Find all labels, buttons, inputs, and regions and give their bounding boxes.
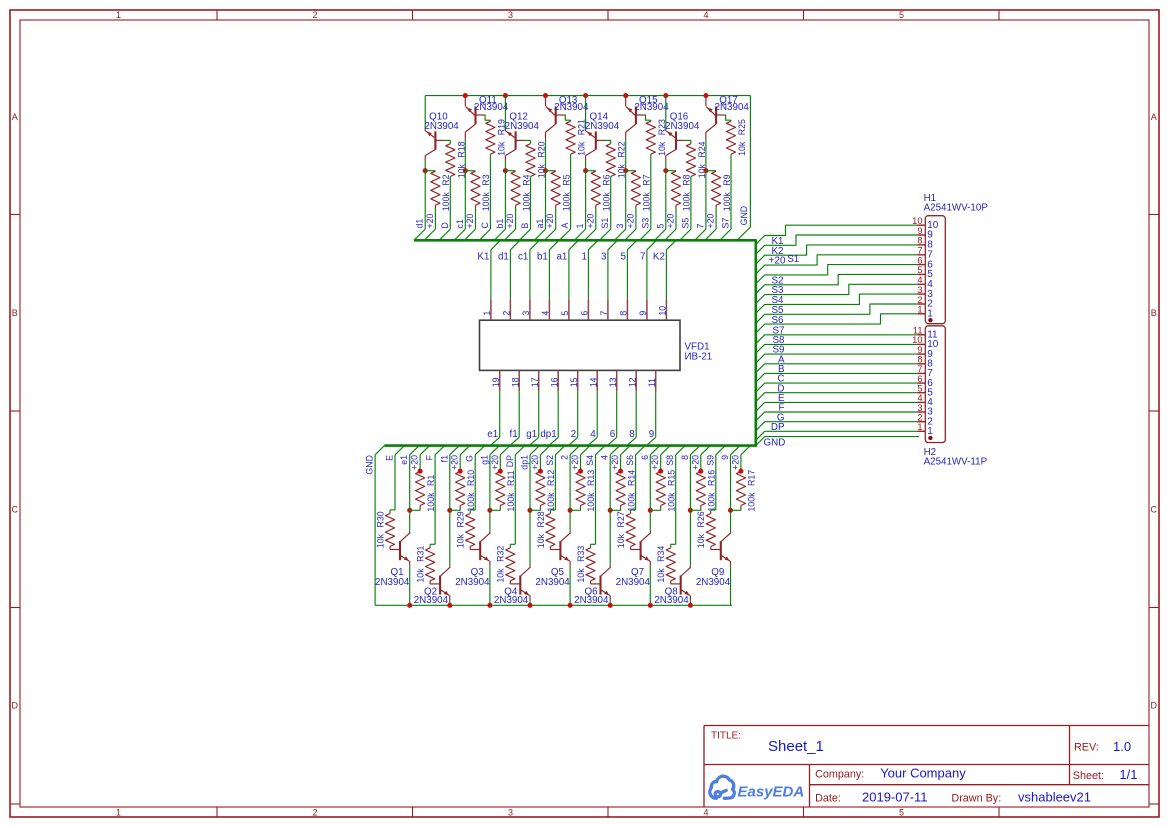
wire Q2 emitter to GND rail (449, 600, 451, 605)
resistor R7 100k (631, 171, 640, 205)
wire GND top rail (425, 95, 750, 97)
svg-text:4: 4 (541, 311, 551, 316)
pin 8 (H2) (917, 363, 925, 365)
svg-text:1: 1 (581, 251, 586, 262)
pin 8 (VFD1) (626, 299, 628, 320)
wire net b1 to bus (504, 171, 506, 229)
bus entry + wire net +20 to R1 (420, 446, 430, 455)
svg-text:D: D (12, 701, 19, 711)
junction node f1 / R10 / Q2 (447, 508, 452, 513)
svg-text:R9: R9 (722, 174, 732, 185)
svg-text:R7: R7 (642, 174, 652, 185)
svg-text:+20: +20 (666, 213, 676, 228)
svg-text:S3: S3 (640, 218, 650, 229)
svg-text:S1: S1 (787, 254, 799, 265)
pin 12 (VFD1) (635, 370, 637, 391)
svg-text:1: 1 (116, 10, 121, 20)
svg-text:D: D (440, 222, 450, 228)
svg-text:e1: e1 (399, 455, 409, 465)
wire Q12 collector to junction (504, 161, 506, 171)
pin 5 (VFD1) (568, 299, 570, 320)
resistor R30 10k (389, 512, 391, 514)
wire R32 to Q4 base (510, 583, 520, 585)
junction node a1 / R5 / Q13 (543, 168, 548, 173)
bus entry + wire net 8 (690, 446, 700, 455)
svg-text:100k: 100k (586, 492, 596, 512)
wire R7 to bus (net +20) (635, 208, 637, 229)
svg-text:R8: R8 (682, 174, 692, 185)
transistor Q15 (2N3904 NPN) (625, 96, 627, 107)
junction node 8 / R16 / Q8 (688, 508, 693, 513)
svg-text:13: 13 (608, 377, 618, 387)
junction node +20 / R1 (418, 469, 423, 474)
svg-text:S8: S8 (665, 455, 675, 466)
wire R13 to junction (570, 509, 580, 511)
svg-text:100k: 100k (506, 492, 516, 512)
transistor Q16 (2N3904 NPN) (665, 130, 667, 132)
svg-text:A: A (1151, 112, 1157, 122)
svg-text:R11: R11 (506, 470, 516, 486)
resistor R6 100k (591, 171, 600, 205)
svg-text:10k: 10k (696, 533, 706, 548)
resistor R4 100k (511, 171, 520, 205)
svg-text:2019-07-11: 2019-07-11 (862, 789, 928, 804)
wire Q9 emitter to GND rail (730, 566, 732, 606)
pin 7 (VFD1) (607, 299, 609, 320)
pin 4 (H1) (917, 283, 925, 285)
junction node +20 / R15 (658, 469, 663, 474)
wire R14 to junction (610, 509, 620, 511)
bus entry for net 9 (646, 437, 655, 445)
wire junction to R2 (425, 170, 435, 172)
bus entry for net S7 (720, 229, 731, 240)
svg-text:R28: R28 (536, 511, 546, 527)
svg-text:100k: 100k (466, 492, 476, 512)
wire net a1 to bus (545, 171, 547, 229)
bus entry for net S1 (600, 229, 611, 240)
wire Q6 emitter to GND rail (609, 600, 611, 605)
wire VFD1 pin 16 to bus (net dp1) (557, 391, 559, 437)
bus entry + wire net S2 to R28 (555, 446, 565, 455)
svg-text:1: 1 (917, 305, 922, 315)
bus entry + wire net F to R31 (435, 446, 445, 455)
junction on GND rail at Q4 emitter (527, 603, 532, 608)
svg-text:A: A (560, 223, 570, 229)
bus exit + wire to H2 pin 9 (net S9) (756, 354, 917, 363)
svg-text:R29: R29 (456, 511, 466, 527)
wire net c1 to bus (464, 171, 466, 229)
svg-text:c1: c1 (455, 219, 465, 228)
resistor R32 10k (509, 546, 511, 548)
svg-text:R3: R3 (481, 174, 491, 185)
svg-text:16: 16 (549, 377, 559, 387)
resistor R8 100k (671, 171, 680, 205)
bus entry + wire net a1 to VFD1 pin 5 (569, 240, 579, 250)
svg-text:8: 8 (619, 311, 629, 316)
pin 1 marker dot (H1) (928, 318, 932, 322)
wire VFD1 pin 17 to bus (net g1) (538, 391, 540, 437)
svg-text:+20: +20 (545, 213, 555, 228)
wire R3 to bus (net +20) (475, 208, 477, 229)
svg-text:9: 9 (720, 455, 730, 460)
svg-text:10k: 10k (656, 568, 666, 583)
svg-text:8: 8 (680, 455, 690, 460)
pin 16 (VFD1) (557, 370, 559, 391)
svg-text:2: 2 (312, 10, 317, 20)
bus exit + wire to H1 pin 5 (756, 274, 917, 293)
svg-text:R12: R12 (546, 470, 556, 486)
wire R9 to bus (net +20) (715, 208, 717, 229)
svg-text:B: B (520, 223, 530, 229)
svg-text:100k: 100k (707, 492, 717, 512)
pin 1 marker dot (H2) (928, 436, 932, 440)
bus entry + wire net +20 to R16 (701, 446, 711, 455)
junction node 7 / R9 / Q17 (703, 168, 708, 173)
svg-text:11: 11 (913, 326, 923, 336)
resistor R28 10k (549, 512, 551, 514)
svg-text:3: 3 (917, 285, 922, 295)
bus entry + wire net +20 to R15 (661, 446, 671, 455)
wire Q4 collector to junction (529, 510, 531, 565)
wire Q13 collector to junction (545, 139, 547, 170)
resistor R27 10k (630, 512, 632, 514)
svg-text:100k: 100k (747, 492, 757, 512)
pin 11 (H2) (917, 334, 925, 336)
svg-text:10k: 10k (577, 141, 587, 156)
svg-text:c1: c1 (518, 251, 528, 262)
wire Q7 collector to junction (649, 510, 651, 531)
wire R20 to bus (net B) (530, 177, 532, 230)
wire R22 to bus (net S1) (610, 177, 612, 230)
svg-text:4: 4 (917, 275, 922, 285)
wire Q8 collector to junction (689, 510, 691, 565)
resistor R18 10k (446, 144, 455, 177)
svg-text:TITLE:: TITLE: (711, 731, 741, 742)
svg-text:3: 3 (615, 224, 625, 229)
svg-text:DP: DP (771, 422, 785, 433)
svg-text:B: B (12, 308, 18, 318)
pin 3 (H2) (917, 411, 925, 413)
pin 6 (H2) (917, 382, 925, 384)
bus entry for net A (559, 229, 570, 240)
IC VFD1 (IV-21 vacuum fluorescent display) body (480, 320, 681, 370)
svg-text:R30: R30 (375, 511, 385, 527)
junction node 9 / R17 / Q9 (728, 508, 733, 513)
svg-text:9: 9 (917, 226, 922, 236)
svg-text:2N3904: 2N3904 (585, 121, 620, 132)
wire R17 to junction (731, 509, 741, 511)
bus entry + wire net e1 (410, 446, 420, 455)
transistor Q6 (2N3904 NPN) (599, 576, 601, 595)
svg-text:6: 6 (917, 374, 922, 384)
junction node 3 / R7 / Q15 (623, 168, 628, 173)
svg-text:19: 19 (491, 377, 501, 387)
svg-text:d1: d1 (415, 219, 425, 229)
junction node g1 / R11 / Q3 (487, 508, 492, 513)
svg-text:R13: R13 (586, 470, 596, 486)
bus entry + wire net +20 to R17 (741, 446, 751, 455)
bus entry + wire net S8 to R34 (676, 446, 686, 455)
svg-text:R1: R1 (426, 475, 436, 486)
svg-text:3: 3 (601, 251, 607, 262)
pin 7 (H2) (917, 372, 925, 374)
svg-text:4: 4 (917, 393, 922, 403)
wire Q1 collector to junction (409, 510, 411, 531)
svg-text:3: 3 (508, 807, 513, 817)
svg-text:Drawn By:: Drawn By: (951, 793, 1001, 805)
svg-text:4: 4 (703, 10, 708, 20)
resistor R22 10k (606, 144, 615, 177)
svg-text:+20: +20 (490, 455, 500, 470)
bus entry for net d1 (414, 229, 425, 240)
resistor R20 10k (526, 144, 535, 177)
svg-text:R17: R17 (747, 470, 757, 486)
svg-text:100k: 100k (426, 492, 436, 512)
svg-text:+20: +20 (706, 213, 716, 228)
svg-text:EasyEDA: EasyEDA (738, 783, 805, 800)
bus exit + wire to H2 pin 11 (net S7) (756, 335, 917, 344)
svg-text:+20: +20 (625, 213, 635, 228)
bus exit + wire to H1 pin 3 (756, 294, 917, 313)
svg-text:R15: R15 (666, 470, 676, 486)
pin 6 (VFD1) (587, 299, 589, 320)
pin 2 (H2) (917, 421, 925, 423)
svg-text:3: 3 (508, 10, 513, 20)
bus entry + wire net +20 to R10 (460, 446, 470, 455)
wire Q1 emitter to GND rail (409, 566, 411, 606)
svg-text:dp1: dp1 (520, 455, 530, 470)
svg-text:1.0: 1.0 (1113, 739, 1131, 754)
bus entry for net 6 (607, 437, 616, 445)
wire junction to R9 (706, 170, 716, 172)
bus entry for net 4 (588, 437, 597, 445)
transistor Q14 (2N3904 NPN) (585, 130, 587, 132)
junction on GND rail at Q17 emitter (703, 93, 708, 98)
transistor Q11 (2N3904 NPN) (464, 96, 466, 107)
pin 5 (H2) (917, 392, 925, 394)
svg-text:C: C (480, 222, 490, 229)
pin 5 (H1) (917, 273, 925, 275)
wire R8 to bus (net +20) (675, 208, 677, 229)
bus entry + wire net +20 to R11 (500, 446, 510, 455)
bus exit + wire to H1 pin 1 (756, 314, 917, 333)
bus entry for net 7 (695, 229, 706, 240)
wire R16 to junction (690, 509, 700, 511)
wire VFD1 pin 11 to bus (net 9) (655, 391, 657, 437)
wire R11 to junction (490, 509, 500, 511)
bus exit + wire to H1 pin 6 (756, 265, 917, 284)
svg-text:f1: f1 (510, 429, 518, 440)
wire R2 to bus (net +20) (434, 208, 436, 229)
svg-text:1: 1 (917, 422, 922, 432)
bus exit + wire to H2 pin 1 (net DP) (756, 431, 917, 440)
junction node 6 / R15 / Q7 (648, 508, 653, 513)
bus exit + wire to H2 pin 6 (net C) (756, 383, 917, 392)
pin 18 (VFD1) (518, 370, 520, 391)
bus entry + wire net S4 to R33 (596, 446, 606, 455)
svg-text:+20: +20 (450, 455, 460, 470)
transistor Q1 (2N3904 NPN) (399, 541, 401, 560)
bus entry + wire net 6 (650, 446, 660, 455)
bus entry + wire net 5 to VFD1 pin 8 (627, 240, 637, 250)
junction node 5 / R8 / Q16 (663, 168, 668, 173)
resistor R33 10k (590, 546, 592, 548)
junction node 2 / R13 / Q5 (568, 508, 573, 513)
resistor R34 10k (670, 546, 672, 548)
wire junction to R7 (626, 170, 636, 172)
svg-text:2N3904: 2N3904 (665, 121, 700, 132)
bus entry + wire net b1 to VFD1 pin 4 (549, 240, 559, 250)
svg-text:5: 5 (917, 384, 922, 394)
svg-text:3: 3 (917, 403, 922, 413)
svg-text:6: 6 (580, 311, 590, 316)
bus entry for net +20 (R4) (504, 229, 515, 240)
wire R5 to bus (net +20) (555, 208, 557, 229)
svg-text:1: 1 (482, 311, 492, 316)
transistor Q5 (2N3904 NPN) (559, 541, 561, 560)
svg-text:Company:: Company: (815, 768, 864, 780)
svg-text:10k: 10k (375, 533, 385, 548)
junction on GND rail at Q13 emitter (543, 93, 548, 98)
bus exit + wire to H2 pin 10 (net S8) (756, 344, 917, 353)
wire R21 to bus (net A) (570, 154, 572, 229)
pin 2 (VFD1) (509, 299, 511, 320)
bus entry + wire net 7 to VFD1 pin 9 (647, 240, 657, 250)
wire Q14 collector to junction (585, 161, 587, 171)
wire net 3 to bus (625, 171, 627, 229)
resistor R23 10k (646, 121, 655, 154)
junction node +20 / R14 (618, 469, 623, 474)
svg-text:2N3904: 2N3904 (574, 595, 609, 606)
svg-text:10k: 10k (576, 568, 586, 583)
bus entry + wire net G to R29 (475, 446, 485, 455)
junction node +20 / R11 (498, 469, 503, 474)
bus exit + wire to H2 pin 2 (net G) (756, 422, 917, 431)
wire R33 to Q6 base (591, 583, 601, 585)
junction on GND rail at Q1 emitter (407, 603, 412, 608)
wire R28 to Q5 base (550, 549, 560, 551)
wire GND bottom rail (375, 604, 732, 606)
svg-text:Your Company: Your Company (880, 765, 966, 780)
svg-text:1: 1 (927, 426, 933, 437)
pin 3 (H1) (917, 293, 925, 295)
svg-text:4: 4 (590, 429, 596, 440)
svg-text:2: 2 (560, 455, 570, 460)
svg-text:100k: 100k (561, 192, 571, 212)
resistor R9 100k (712, 171, 721, 205)
bus entry for net S3 (640, 229, 651, 240)
transistor Q2 (2N3904 NPN) (439, 576, 441, 595)
wire junction to R8 (666, 170, 676, 172)
junction on GND rail at Q14 emitter (583, 93, 588, 98)
svg-text:8: 8 (917, 236, 922, 246)
wire Q2 collector to junction (449, 510, 451, 565)
bus exit + wire to H2 pin 3 (net F) (756, 412, 917, 421)
svg-text:A2541WV-11P: A2541WV-11P (924, 457, 988, 468)
bus entry for net g1 (529, 437, 538, 445)
resistor R14 100k (616, 472, 625, 506)
svg-text:5: 5 (560, 311, 570, 316)
resistor R25 10k (726, 121, 735, 154)
pin 14 (VFD1) (596, 370, 598, 391)
svg-text:Date:: Date: (815, 792, 841, 804)
svg-text:2: 2 (502, 311, 512, 316)
svg-text:2N3904: 2N3904 (696, 577, 731, 588)
junction node b1 / R4 / Q12 (503, 168, 508, 173)
svg-text:9: 9 (649, 429, 654, 440)
junction node e1 / R1 / Q1 (407, 508, 412, 513)
wire VFD1 pin 15 to bus (net 2) (577, 391, 579, 437)
pin 1 (VFD1) (490, 299, 492, 320)
svg-text:1: 1 (116, 807, 121, 817)
junction on GND rail at Q15 emitter (623, 93, 628, 98)
wire R23 to bus (net S3) (650, 154, 652, 229)
wire Q10 collector to junction (424, 161, 426, 171)
bus entry + wire net g1 (490, 446, 500, 455)
svg-text:9: 9 (638, 311, 648, 316)
wire rail to Q14 emitter (585, 96, 587, 130)
bus entry for net B (519, 229, 530, 240)
svg-text:R26: R26 (696, 511, 706, 527)
junction on GND rail at Q6 emitter (608, 603, 613, 608)
svg-text:2N3904: 2N3904 (424, 121, 459, 132)
bus entry for net c1 (454, 229, 465, 240)
svg-text:d1: d1 (498, 251, 509, 262)
bus entry for net +20 (R2) (424, 229, 435, 240)
svg-text:+20: +20 (650, 455, 660, 470)
transistor Q7 (2N3904 NPN) (640, 541, 642, 560)
svg-text:3: 3 (521, 311, 531, 316)
pin 4 (VFD1) (548, 299, 550, 320)
svg-text:14: 14 (588, 377, 598, 387)
wire Q13 base to R21 (565, 115, 571, 120)
junction node dp1 / R12 / Q4 (527, 508, 532, 513)
svg-text:b1: b1 (495, 219, 505, 229)
svg-text:A: A (12, 112, 18, 122)
resistor R10 100k (456, 472, 465, 506)
resistor R15 100k (656, 472, 665, 506)
svg-text:1: 1 (927, 309, 933, 320)
svg-text:6: 6 (640, 455, 650, 460)
resistor R24 10k (686, 144, 695, 177)
junction node +20 / R16 (698, 469, 703, 474)
wire R31 to Q2 base (430, 583, 440, 585)
junction on GND rail at Q16 emitter (663, 93, 668, 98)
bus entry + wire net d1 to VFD1 pin 2 (510, 240, 520, 250)
bus entry + wire net 1 to VFD1 pin 6 (588, 240, 598, 250)
junction on GND rail at Q2 emitter (447, 603, 452, 608)
svg-text:7: 7 (917, 246, 922, 256)
resistor R19 10k (486, 121, 495, 154)
svg-text:100k: 100k (521, 192, 531, 212)
svg-text:R10: R10 (466, 470, 476, 486)
svg-text:+20: +20 (730, 455, 740, 470)
svg-text:A2541WV-10P: A2541WV-10P (924, 203, 989, 214)
svg-text:S6: S6 (625, 455, 635, 466)
svg-text:2N3904: 2N3904 (414, 595, 449, 606)
wire Q14 base to R22 (605, 139, 611, 141)
svg-text:g1: g1 (479, 455, 489, 465)
svg-text:R6: R6 (602, 174, 612, 185)
connector H2 (A2541WV-11P) body (925, 326, 945, 443)
junction on GND rail at Q8 emitter (688, 603, 693, 608)
pin 13 (VFD1) (616, 370, 618, 391)
svg-text:S5: S5 (680, 218, 690, 229)
wire Q15 collector to junction (625, 139, 627, 170)
svg-text:f1: f1 (439, 455, 449, 462)
bus entry for net a1 (534, 229, 545, 240)
svg-text:2N3904: 2N3904 (474, 102, 509, 113)
